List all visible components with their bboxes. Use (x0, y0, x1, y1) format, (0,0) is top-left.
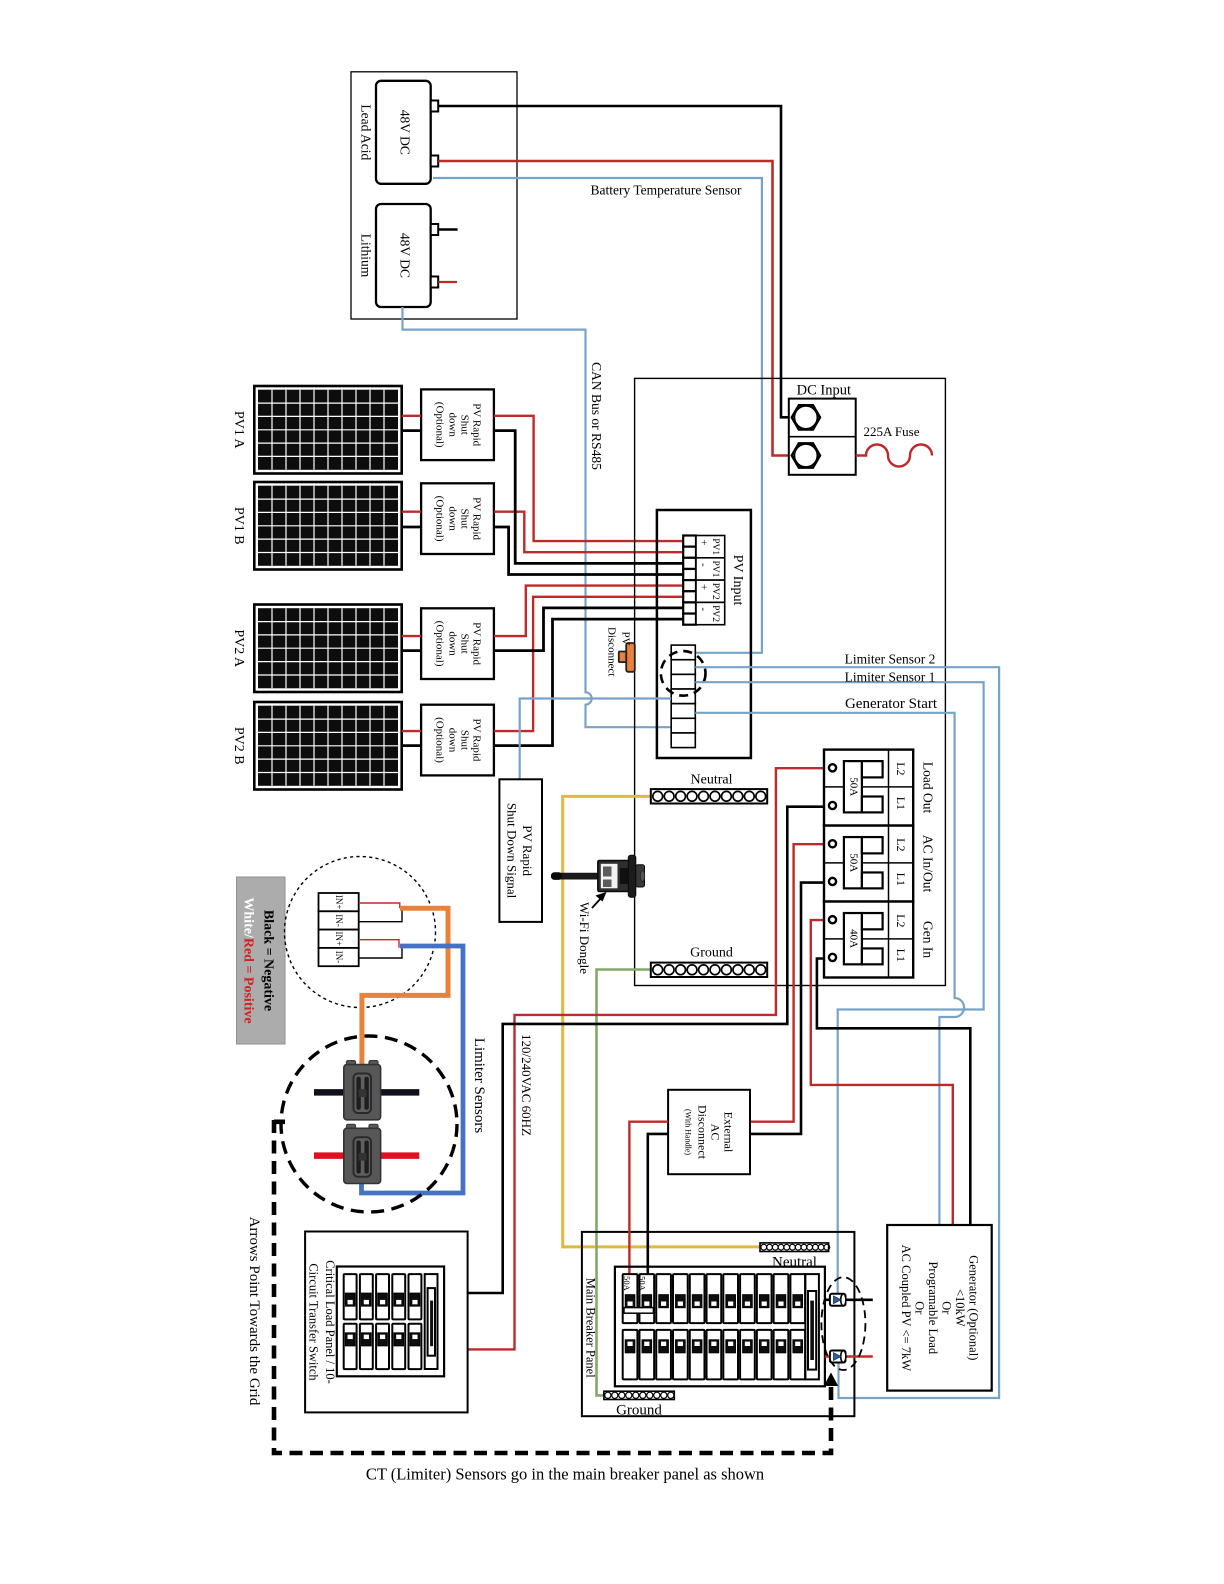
Critical Load Panel / transfer switch outer box (305, 1232, 468, 1413)
svg-text:Circuit Transfer Switch: Circuit Transfer Switch (307, 1263, 321, 1381)
svg-text:Generator Start: Generator Start (845, 696, 938, 712)
svg-text:+: + (698, 584, 710, 590)
svg-text:(Optional): (Optional) (434, 717, 446, 763)
Wi-Fi dongle (antenna + body) plugged into inverter (552, 855, 645, 897)
svg-text:AC: AC (709, 1124, 723, 1141)
DC input negative lug (hex bolt) (792, 405, 820, 429)
svg-text:120/240VAC 60HZ: 120/240VAC 60HZ (519, 1034, 534, 1136)
svg-text:PV2 B: PV2 B (231, 727, 246, 765)
breaker AC In/Out terminal screws (829, 840, 836, 847)
svg-text:CT (Limiter) Sensors go in the: CT (Limiter) Sensors go in the main brea… (366, 1465, 764, 1484)
wire ground (green) inverter to main panel ground bus (597, 970, 651, 1396)
svg-text:(Optional): (Optional) (434, 402, 446, 448)
dashed circle around CT clamps (281, 1036, 457, 1212)
svg-text:PV1 A: PV1 A (231, 411, 246, 450)
svg-text:IN-: IN- (334, 951, 344, 964)
limiter input terminal strip IN+ IN- IN+ IN- (319, 893, 359, 911)
svg-text:PV Rapid: PV Rapid (471, 719, 483, 762)
wire Limiter Sensor 2 (blue): aux port 2 to lower CT in main panel (695, 667, 999, 1398)
black conductor stub through upper CT (825, 1299, 873, 1302)
battery B2 Lithium 48V DC (376, 204, 431, 307)
breaker Load Out (50A) (824, 750, 913, 826)
svg-text:L1: L1 (894, 949, 908, 962)
svg-text:40A: 40A (847, 929, 859, 948)
battery enclosure box (351, 72, 517, 319)
dashed ellipse around main panel CTs (821, 1277, 865, 1370)
svg-text:50A: 50A (637, 1276, 647, 1292)
svg-text:Main Breaker Panel: Main Breaker Panel (584, 1278, 598, 1378)
terminal B2+ (top) (431, 224, 439, 235)
PV Rapid Shut Down Signal box (499, 779, 542, 922)
wire PV2A - black to PV input terminal 7 (494, 608, 683, 651)
svg-text:50A: 50A (847, 853, 859, 872)
svg-text:Load Out: Load Out (921, 762, 936, 814)
svg-text:50A: 50A (622, 1276, 632, 1292)
wire AC In/Out L1 (black) breaker to external AC disconnect (750, 883, 829, 1134)
wire lithium negative stub (red) (438, 281, 457, 283)
wire battery negative black: lead-acid to DC Input top lug (438, 106, 792, 417)
svg-text:PV2: PV2 (710, 605, 720, 622)
svg-text:48V DC: 48V DC (398, 110, 413, 155)
PV rapid shutdown box (PV2 B) (421, 705, 494, 776)
wire PV1B + red to PV input terminal 2 (494, 512, 683, 553)
svg-text:PV Rapid: PV Rapid (471, 622, 483, 665)
wire PV2A - (black) panel to shutdown box (402, 649, 421, 652)
svg-text:-: - (698, 608, 710, 612)
svg-text:Shut Down Signal: Shut Down Signal (505, 803, 520, 899)
svg-text:Gen In: Gen In (921, 921, 936, 958)
wire PV2B + (red) panel to shutdown box (402, 730, 421, 732)
wire lithium positive stub (black) (438, 228, 457, 231)
svg-text:Or: Or (940, 1301, 954, 1315)
svg-text:Neutral: Neutral (691, 773, 733, 788)
svg-text:Lead Acid: Lead Acid (359, 104, 374, 160)
svg-text:Or: Or (913, 1301, 927, 1315)
legend box: Black = Negative / White-Red = Positive (237, 877, 286, 1044)
wire Gen In L1 (black) breaker to generator (817, 959, 970, 1226)
wire thin black lead IN- (2) (359, 908, 402, 921)
breaker AC In/Out (50A) (824, 826, 913, 902)
wire PV rapid shutdown signal (blue): aux port 4 to signal box (520, 699, 672, 780)
wire battery temperature sensor (blue) to inverter aux port 1 (433, 178, 762, 653)
svg-text:Shut: Shut (459, 730, 471, 750)
svg-text:L2: L2 (894, 914, 908, 927)
wire PV2A + red to PV input terminal 5 (494, 586, 683, 637)
wire Gen In L2 (red) breaker to generator (811, 920, 953, 1225)
wire PV2B - (black) panel to shutdown box (402, 744, 421, 747)
critical panel breakers (5x2) (344, 1274, 357, 1319)
wire thin black lead IN- (4) (359, 948, 402, 958)
main panel breakers (11x2) (623, 1274, 638, 1323)
breaker Gen In (40A) (824, 902, 913, 978)
svg-text:Lithium: Lithium (359, 234, 374, 278)
svg-text:+: + (698, 539, 710, 545)
breaker AC In/Out body (844, 837, 862, 888)
solar panel PV2 B (254, 702, 401, 790)
wire PV1A + (red) panel to shutdown box (402, 415, 421, 417)
svg-text:IN+: IN+ (334, 931, 344, 946)
svg-text:PV1: PV1 (710, 560, 720, 577)
wire PV2B + red to PV input terminal 6 (494, 597, 683, 731)
svg-text:225A Fuse: 225A Fuse (864, 424, 920, 439)
breaker Gen In terminal screws (829, 916, 836, 923)
svg-text:PV1: PV1 (710, 538, 720, 555)
svg-text:PV2 A: PV2 A (231, 629, 246, 668)
svg-text:(With Handle): (With Handle) (684, 1109, 693, 1155)
wire CAN Bus or RS485 (blue) lithium to inverter aux port 6, hop over signal wire (403, 307, 672, 727)
svg-text:CAN Bus or RS485: CAN Bus or RS485 (589, 362, 604, 470)
terminal B2- (bottom) (431, 277, 439, 288)
svg-text:Disconnect: Disconnect (696, 1105, 710, 1160)
svg-text:PV2: PV2 (710, 583, 720, 600)
svg-text:PV Rapid: PV Rapid (471, 497, 483, 540)
svg-text:External: External (722, 1112, 736, 1153)
svg-text:PV1 B: PV1 B (231, 507, 246, 545)
svg-text:Wi-Fi Dongle: Wi-Fi Dongle (577, 902, 592, 974)
wire Generator Start (blue): aux port 5 to generator, hop over LS1 (695, 713, 964, 1225)
solar panel PV2 A (254, 605, 401, 693)
wire AC In/Out L2 (red) breaker to external AC disconnect (750, 844, 829, 1121)
svg-text:Ground: Ground (690, 945, 733, 960)
terminal B1- (bottom) (431, 156, 439, 167)
svg-text:Black = Negative: Black = Negative (261, 910, 276, 1011)
inverter aux/comm terminal strip (7 terminals) (671, 645, 695, 660)
PV Disconnect symbol (orange plug) (626, 643, 635, 672)
wire red from external AC disconnect to main 50A breaker 1 (629, 1122, 668, 1274)
CT clamp body (ferrite split-core) (347, 1124, 356, 1132)
svg-text:48V DC: 48V DC (398, 233, 413, 278)
wire PV2B - black to PV input terminal 8 (494, 619, 683, 746)
arrow to Wi-Fi dongle (592, 897, 602, 908)
svg-text:Arrows Point Towards the Grid: Arrows Point Towards the Grid (246, 1217, 262, 1406)
svg-text:Neutral: Neutral (772, 1255, 817, 1271)
breaker Gen In body (844, 913, 862, 964)
PV rapid shutdown box (PV1 A) (421, 389, 494, 460)
svg-text:IN+: IN+ (334, 895, 344, 910)
wire PV1B - black to PV input terminal 4 (494, 527, 683, 575)
svg-text:Critical Load Panel / 10-: Critical Load Panel / 10- (323, 1260, 337, 1384)
svg-text:AC In/Out: AC In/Out (921, 835, 936, 893)
svg-text:50A: 50A (847, 777, 859, 796)
solar panel PV1 A (254, 386, 401, 474)
wire battery positive red: lead-acid to DC Input bottom lug (438, 161, 790, 456)
breaker Load Out body (844, 761, 862, 812)
svg-text:PV: PV (620, 632, 632, 646)
dashed circle around limiter sensor terminals (661, 651, 706, 696)
wire blue: limiter input 3-4 to lower CT clamp (362, 946, 464, 1193)
svg-text:down: down (447, 728, 459, 753)
wire Load Out L1 (black) breaker to critical load panel (468, 807, 829, 1293)
svg-text:Shut: Shut (459, 509, 471, 529)
Generator (Optional) box (887, 1225, 992, 1391)
lower CT sensor (Limiter Sensor 2) (830, 1351, 846, 1363)
wire neutral (yellow) inverter to main panel neutral bus (563, 796, 760, 1247)
svg-text:Battery Temperature Sensor: Battery Temperature Sensor (590, 183, 742, 198)
DC Input lug block (789, 399, 856, 475)
svg-text:IN-: IN- (334, 914, 344, 927)
svg-text:L1: L1 (894, 797, 908, 810)
svg-text:(Optional): (Optional) (434, 621, 446, 667)
svg-text:PV Input: PV Input (730, 555, 745, 606)
svg-text:L2: L2 (894, 838, 908, 851)
inverter ground bus bar (651, 963, 767, 977)
wire Load Out L2 (red) breaker to critical load panel (468, 768, 829, 1349)
svg-text:PV Rapid: PV Rapid (471, 403, 483, 446)
terminal B1+ (top) (431, 101, 439, 112)
breaker Load Out terminal screws (829, 764, 836, 771)
svg-text:Shut: Shut (459, 415, 471, 435)
arrow pointing up toward grid (below CTs) (824, 1373, 838, 1387)
PV Input box (657, 510, 751, 758)
wire thin red lead IN+ (1) (359, 903, 400, 908)
svg-text:(Optional): (Optional) (434, 496, 446, 542)
svg-text:-: - (698, 563, 710, 567)
wire PV2A + (red) panel to shutdown box (402, 635, 421, 637)
CT clamp body (ferrite split-core) (347, 1061, 356, 1069)
upper CT sensor (Limiter Sensor 1) (830, 1294, 846, 1306)
wire PV1A - black to PV input terminal 3 (494, 431, 683, 564)
svg-text:L1: L1 (894, 873, 908, 886)
dotted circle around limiter input terminals (285, 857, 436, 1008)
svg-text:Disconnect: Disconnect (606, 627, 618, 676)
External AC Disconnect box (668, 1090, 750, 1174)
225A fuse (red squiggle) (856, 445, 932, 467)
wire thin red lead IN+ (3) (359, 940, 399, 948)
svg-text:down: down (447, 506, 459, 531)
critical panel breaker box (337, 1267, 444, 1377)
svg-text:Limiter Sensor 1: Limiter Sensor 1 (845, 670, 936, 685)
solar panel PV1 B (254, 482, 401, 570)
red conductor stub through lower CT (825, 1355, 873, 1358)
red conductor through lower CT clamp (314, 1152, 419, 1159)
wire black from external AC disconnect to main 50A breaker 2 (648, 1134, 668, 1274)
svg-text:Limiter Sensor 2: Limiter Sensor 2 (845, 651, 936, 666)
main panel main switch column (805, 1274, 819, 1379)
svg-text:Programable Load: Programable Load (926, 1261, 940, 1354)
wire PV1B - (black) panel to shutdown box (402, 526, 421, 529)
tie bar across 50A breakers (624, 1308, 653, 1314)
svg-text:AC Coupled PV <= 7kW: AC Coupled PV <= 7kW (899, 1245, 913, 1372)
main panel ground bus bar (604, 1391, 674, 1399)
black conductor through upper CT clamp (314, 1089, 419, 1096)
svg-text:Generator (Optional): Generator (Optional) (967, 1255, 981, 1360)
PV rapid shutdown box (PV2 A) (421, 608, 494, 679)
svg-text:PV Rapid: PV Rapid (520, 825, 535, 876)
svg-text:down: down (447, 412, 459, 437)
battery B1 Lead Acid 48V DC (376, 81, 431, 184)
wire PV1A - (black) panel to shutdown box (402, 429, 421, 432)
critical panel transfer switch column (425, 1274, 438, 1369)
dashed annotation line: arrows point towards the grid (274, 1120, 831, 1453)
svg-text:down: down (447, 631, 459, 656)
inverter outer box (635, 378, 946, 985)
main panel neutral bus bar (760, 1243, 829, 1252)
wire Limiter Sensor 1 (blue): aux port 3 to upper CT in main panel (695, 682, 983, 1294)
DC input positive lug (hex bolt) (792, 443, 820, 467)
svg-text:Shut: Shut (459, 634, 471, 654)
inverter neutral bus bar (651, 789, 767, 803)
PV input terminal labels (+PV1 -PV1 +PV2 -PV2) (696, 536, 725, 558)
svg-text:White/Red = Positive: White/Red = Positive (241, 897, 256, 1023)
svg-text:Limiter Sensors: Limiter Sensors (471, 1038, 487, 1134)
svg-text:Ground: Ground (616, 1403, 662, 1419)
Main Breaker Panel outer box (582, 1232, 855, 1416)
PV input terminal strip (8 screw terminals) (683, 536, 696, 547)
wire PV1B + (red) panel to shutdown box (402, 511, 421, 513)
svg-text:<10kW: <10kW (953, 1289, 967, 1327)
svg-text:L2: L2 (894, 762, 908, 775)
wire PV1A + red to PV input terminal 1 (494, 416, 683, 541)
main panel breaker box (615, 1267, 825, 1387)
wire orange: limiter input 1-2 to upper CT clamp (362, 908, 448, 1066)
PV rapid shutdown box (PV1 B) (421, 483, 494, 554)
svg-text:DC Input: DC Input (797, 383, 851, 399)
